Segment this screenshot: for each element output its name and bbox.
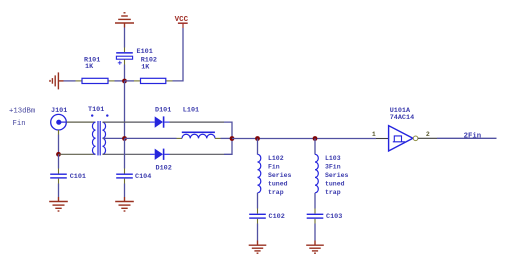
inductor L102: [258, 154, 292, 196]
svg-text:3Fin: 3Fin: [325, 163, 341, 170]
svg-text:Fin: Fin: [268, 163, 280, 170]
wire (shield node down to C101): [58, 154, 60, 168]
svg-text:74AC14: 74AC14: [390, 114, 414, 122]
svg-text:L101: L101: [183, 106, 199, 114]
svg-text:D101: D101: [155, 106, 171, 114]
inductor L103: [315, 154, 349, 196]
svg-text:D102: D102: [156, 165, 172, 173]
wire (C102 to ground): [257, 224, 259, 241]
wire (tap node down to C104): [124, 139, 126, 169]
svg-text:L102: L102: [268, 155, 284, 162]
ground (below C101): [49, 197, 68, 211]
svg-text:2: 2: [426, 131, 430, 138]
node trap2 junction: [313, 136, 318, 141]
svg-text:trap: trap: [268, 189, 284, 196]
svg-text:tuned: tuned: [325, 180, 345, 187]
node center tap junction: [122, 136, 127, 141]
svg-text:C102: C102: [269, 213, 285, 221]
capacitor C101: [50, 173, 86, 181]
wire (L101 to diode output node): [221, 137, 233, 139]
wire (J101 down to shield node): [58, 130, 60, 135]
wire pin 1 stub: [376, 138, 388, 140]
pin stub C102 bottom: [257, 219, 259, 224]
node diode output junction: [230, 136, 235, 141]
resistor R102: [134, 57, 173, 84]
svg-text:C103: C103: [326, 213, 342, 221]
wire (center tap to tap node): [103, 137, 125, 139]
svg-text:1: 1: [372, 131, 376, 138]
wire (C101 to ground): [58, 184, 60, 198]
wire (E101 to bias node): [124, 65, 126, 82]
wire (L102 to C102): [257, 193, 259, 209]
wire (R101 to bias node): [115, 80, 125, 82]
pin stub E101 top: [124, 48, 126, 53]
pin stub C104 bottom: [124, 179, 126, 184]
capacitor E101 (electrolytic): [116, 48, 153, 65]
svg-text:T101: T101: [88, 106, 104, 114]
node shield junction: [56, 152, 61, 157]
svg-text:tuned: tuned: [268, 180, 288, 187]
pin stub C102 top: [257, 209, 259, 214]
op-amp U101A 74AC14 inverter: [372, 107, 430, 151]
power VCC: [175, 16, 189, 28]
wire (D101 to diode output node): [170, 121, 225, 123]
capacitor C102: [249, 213, 285, 221]
pin stub C104 top: [124, 169, 126, 174]
capacitor C104: [116, 173, 151, 181]
wire (C104 to ground): [124, 184, 126, 198]
wire (bias node to R102): [125, 80, 135, 82]
wire (R102 to VCC): [173, 28, 184, 81]
svg-text:1K: 1K: [141, 63, 150, 71]
connector J101: [51, 107, 68, 130]
wire (secondary top to D101): [103, 121, 151, 123]
pin stub E101 bottom: [124, 59, 126, 64]
wire (J101 to T101 primary top): [67, 121, 96, 123]
diode D101: [150, 106, 171, 127]
svg-text:1K: 1K: [85, 63, 94, 71]
wire (top ground to E101): [124, 28, 126, 48]
svg-text:VCC: VCC: [175, 16, 189, 24]
ground (below C104): [115, 197, 134, 211]
svg-text:trap: trap: [325, 189, 341, 196]
ground (below C103): [306, 241, 324, 254]
pin stub C103 top: [314, 209, 316, 214]
svg-text:2Fin: 2Fin: [464, 132, 482, 140]
wire (trap1 node down): [257, 139, 259, 155]
wire (output to 2Fin): [437, 137, 497, 139]
svg-text:Fin: Fin: [13, 120, 26, 128]
svg-text:E101: E101: [137, 48, 153, 56]
wire (D102 to diode output node): [170, 153, 225, 155]
wire (secondary bottom to D102): [103, 153, 151, 155]
diode D102: [150, 149, 172, 173]
svg-text:C101: C101: [70, 173, 86, 181]
svg-text:+13dBm: +13dBm: [9, 107, 35, 115]
svg-text:L103: L103: [325, 155, 341, 162]
wire (ground to R101): [64, 80, 76, 82]
svg-text:Series: Series: [268, 172, 292, 179]
ground (left of R101): [50, 72, 64, 89]
wire (output node to U101A input): [232, 138, 376, 140]
svg-text:J101: J101: [51, 107, 67, 115]
wire (L103 to C103): [314, 193, 316, 209]
pin stub C101 bottom: [58, 179, 60, 184]
svg-text:C104: C104: [135, 173, 151, 181]
wire (bias node down to center tap): [124, 81, 126, 139]
transformer T101: [88, 106, 109, 155]
capacitor C103: [307, 213, 343, 221]
wire (C103 to ground): [314, 224, 316, 241]
pin stub C101 top: [58, 169, 60, 174]
resistor R101: [76, 57, 115, 84]
ground (below C102): [249, 241, 267, 254]
wire (tap node to L101): [125, 137, 177, 139]
node trap1 junction: [255, 136, 260, 141]
ground (top, above E101): [115, 13, 134, 28]
wire (trap2 node down): [314, 139, 316, 155]
inductor L101: [177, 106, 221, 138]
node +13dBm Fin input label: [9, 107, 35, 127]
svg-text:Series: Series: [325, 172, 349, 179]
wire pin 2 stub: [418, 137, 437, 139]
node bias junction: [122, 79, 127, 84]
wire (shield node to T101 primary bottom): [59, 153, 96, 155]
pin stub C103 bottom: [314, 219, 316, 224]
